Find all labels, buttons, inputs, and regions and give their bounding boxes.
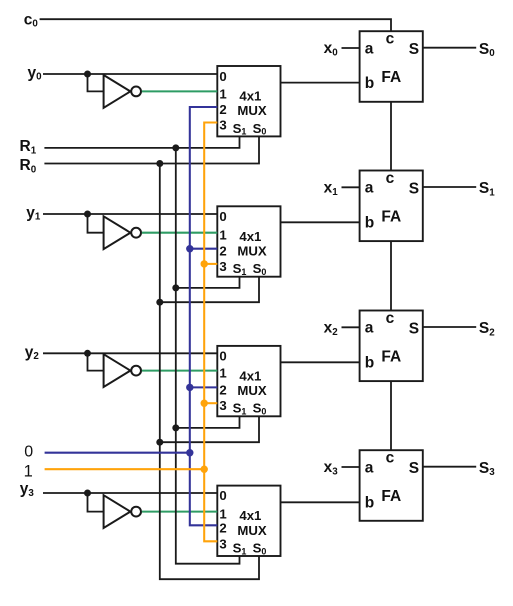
wire carry chain FA2 cout to FA3 cin bbox=[390, 241, 392, 310]
svg-text:MUX: MUX bbox=[237, 103, 267, 118]
wire inverter G1 output to MUX1 pin 1 (green) bbox=[142, 90, 217, 92]
svg-text:c: c bbox=[386, 450, 395, 467]
svg-text:b: b bbox=[365, 495, 374, 512]
svg-text:0: 0 bbox=[219, 69, 226, 84]
svg-text:3: 3 bbox=[219, 536, 226, 551]
svg-text:S1: S1 bbox=[479, 180, 495, 198]
wire net ONE branch to MUX3 pin 3 bbox=[204, 402, 217, 404]
inverter G2 triangle bbox=[104, 216, 131, 249]
svg-text:2: 2 bbox=[219, 102, 226, 117]
wire net R1 branch to MUX2 select S1 bbox=[176, 277, 240, 288]
wire net ONE row from label 1 bbox=[45, 468, 205, 470]
svg-text:2: 2 bbox=[219, 382, 226, 397]
junction y0 node bbox=[84, 71, 91, 78]
svg-text:b: b bbox=[365, 355, 374, 372]
svg-text:a: a bbox=[365, 40, 374, 57]
svg-text:3: 3 bbox=[219, 118, 226, 133]
wire MUX2 output to FA2 pin b bbox=[281, 221, 360, 223]
wire y1 branch to inverter G2 input bbox=[88, 214, 104, 233]
svg-text:S0: S0 bbox=[479, 41, 495, 59]
wire y0 input row to MUX1 pin 0 bbox=[43, 73, 217, 75]
junction net R1 branch MUX3 bbox=[172, 424, 179, 431]
junction net ZERO at MUX3 bbox=[186, 384, 193, 391]
svg-text:a: a bbox=[365, 320, 374, 337]
svg-text:x2: x2 bbox=[324, 320, 339, 338]
svg-text:1: 1 bbox=[219, 366, 226, 381]
svg-text:R1: R1 bbox=[20, 138, 37, 156]
wire net ONE (orange) vertical rail with elbows to MUX1/MUX4 pin 3 bbox=[204, 123, 217, 542]
svg-text:MUX: MUX bbox=[237, 383, 267, 398]
junction net ONE at MUX3 bbox=[201, 400, 208, 407]
svg-text:2: 2 bbox=[219, 520, 226, 535]
wire carry chain FA1 cout to FA2 cin bbox=[390, 102, 392, 171]
wire carry chain FA3 cout to FA4 cin bbox=[390, 381, 392, 450]
svg-text:a: a bbox=[365, 180, 374, 197]
svg-text:2: 2 bbox=[219, 244, 226, 259]
mux U4 4x1 MUX body bbox=[217, 486, 280, 556]
svg-text:S: S bbox=[409, 320, 419, 337]
wire FA1 sum output to S0 label bbox=[423, 47, 476, 49]
wire x2 input to FA3 pin a bbox=[342, 326, 360, 328]
svg-text:0: 0 bbox=[219, 348, 226, 363]
svg-text:S2: S2 bbox=[479, 320, 495, 338]
svg-text:FA: FA bbox=[381, 349, 401, 366]
inverter G4 bubble bbox=[131, 507, 141, 517]
svg-text:FA: FA bbox=[381, 209, 401, 226]
wire MUX3 output to FA3 pin b bbox=[281, 361, 360, 363]
wire inverter G2 output to MUX2 pin 1 (green) bbox=[142, 232, 217, 234]
svg-text:1: 1 bbox=[219, 228, 226, 243]
junction y3 node bbox=[84, 490, 91, 497]
junction y2 node bbox=[84, 350, 91, 357]
svg-text:3: 3 bbox=[219, 259, 226, 274]
svg-text:c: c bbox=[386, 170, 395, 187]
full adder U8 FA body bbox=[360, 450, 423, 521]
wire y0 branch to inverter G1 input bbox=[88, 74, 104, 91]
wire net R0 branch to MUX3 select S0 bbox=[160, 416, 259, 442]
svg-text:y1: y1 bbox=[26, 204, 41, 222]
svg-text:0: 0 bbox=[219, 209, 226, 224]
svg-text:4x1: 4x1 bbox=[239, 89, 261, 104]
junction net R0 branch MUX2 bbox=[156, 299, 163, 306]
wire net R0 branch to MUX2 select S0 bbox=[160, 277, 259, 303]
svg-text:FA: FA bbox=[381, 488, 401, 505]
inverter G4 triangle bbox=[104, 495, 131, 528]
svg-text:R0: R0 bbox=[20, 157, 37, 175]
wire y1 input row to MUX2 pin 0 bbox=[43, 213, 217, 215]
full adder U6 FA body bbox=[360, 171, 423, 242]
svg-text:S3: S3 bbox=[479, 460, 495, 478]
svg-text:MUX: MUX bbox=[237, 244, 267, 259]
wire FA4 sum output to S3 label bbox=[423, 466, 476, 468]
mux U2 4x1 MUX body bbox=[217, 206, 280, 276]
svg-text:c0: c0 bbox=[24, 11, 39, 29]
svg-text:0: 0 bbox=[219, 488, 226, 503]
full adder U7 FA body bbox=[360, 311, 423, 382]
wire y2 branch to inverter G3 input bbox=[88, 353, 104, 370]
svg-text:3: 3 bbox=[219, 398, 226, 413]
inverter G2 bubble bbox=[131, 228, 141, 238]
svg-text:a: a bbox=[365, 459, 374, 476]
svg-text:S: S bbox=[409, 460, 419, 477]
svg-text:FA: FA bbox=[381, 69, 401, 86]
svg-text:S: S bbox=[409, 41, 419, 58]
svg-text:y2: y2 bbox=[25, 344, 40, 362]
svg-text:x3: x3 bbox=[324, 459, 339, 477]
junction net R1 branch MUX2 bbox=[172, 284, 179, 291]
svg-text:x1: x1 bbox=[324, 180, 339, 198]
wire x1 input to FA2 pin a bbox=[342, 186, 360, 188]
svg-text:1: 1 bbox=[219, 86, 226, 101]
wire net ZERO row from label 0 bbox=[45, 452, 190, 454]
svg-text:4x1: 4x1 bbox=[239, 508, 261, 523]
wire FA3 sum output to S2 label bbox=[423, 326, 476, 328]
svg-text:c: c bbox=[386, 310, 395, 327]
inverter G3 triangle bbox=[104, 354, 131, 387]
svg-text:4x1: 4x1 bbox=[239, 229, 261, 244]
wire net ZERO branch to MUX2 pin 2 bbox=[190, 248, 218, 250]
wire net ONE branch to MUX2 pin 3 bbox=[204, 263, 217, 265]
wire y2 input row to MUX3 pin 0 bbox=[43, 352, 217, 354]
wire x3 input to FA4 pin a bbox=[342, 466, 360, 468]
svg-text:b: b bbox=[365, 215, 374, 232]
wire MUX4 output to FA4 pin b bbox=[281, 501, 360, 503]
junction y1 node bbox=[84, 211, 91, 218]
inverter G3 bubble bbox=[131, 366, 141, 376]
svg-text:MUX: MUX bbox=[237, 523, 267, 538]
mux U1 4x1 MUX body bbox=[217, 66, 280, 136]
junction net ONE at row bbox=[201, 466, 208, 473]
wire net R1 branch to MUX3 select S1 bbox=[176, 416, 240, 428]
wire y3 branch to inverter G4 input bbox=[88, 493, 104, 512]
wire inverter G3 output to MUX3 pin 1 (green) bbox=[142, 370, 217, 372]
wire net R1 row to MUX1 select S1 bbox=[44, 136, 239, 148]
svg-text:y3: y3 bbox=[20, 481, 35, 499]
wire net R0 vertical rail bbox=[160, 164, 259, 580]
svg-text:1: 1 bbox=[24, 463, 33, 481]
inverter G1 triangle bbox=[104, 75, 131, 108]
wire x0 input to FA1 pin a bbox=[342, 47, 360, 49]
wire MUX1 output to FA1 pin b bbox=[281, 82, 360, 84]
svg-text:c: c bbox=[386, 31, 395, 48]
junction net ZERO at MUX2 bbox=[186, 245, 193, 252]
junction net R0 at R0 row bbox=[156, 160, 163, 167]
full adder U5 FA body bbox=[360, 31, 423, 102]
junction net ZERO at row bbox=[186, 449, 193, 456]
junction net R0 branch MUX3 bbox=[156, 439, 163, 446]
wire net ZERO branch to MUX3 pin 2 bbox=[190, 386, 218, 388]
wire FA2 sum output to S1 label bbox=[423, 186, 476, 188]
wire y3 input row to MUX4 pin 0 bbox=[43, 492, 217, 494]
wire net c0 from label to FA1 carry-in bbox=[40, 19, 391, 31]
wire net R1 vertical rail bbox=[176, 148, 240, 564]
svg-text:x0: x0 bbox=[324, 40, 339, 58]
junction net ONE at MUX2 bbox=[201, 260, 208, 267]
svg-text:y0: y0 bbox=[28, 64, 43, 82]
wire net ZERO (blue) vertical rail with elbows to MUX1/MUX4 pin 2 bbox=[190, 107, 218, 525]
svg-text:b: b bbox=[365, 75, 374, 92]
wire net R0 row to MUX1 select S0 bbox=[44, 136, 259, 163]
svg-text:4x1: 4x1 bbox=[239, 369, 261, 384]
junction net R1 at R1 row bbox=[172, 144, 179, 151]
svg-text:0: 0 bbox=[24, 443, 33, 460]
mux U3 4x1 MUX body bbox=[217, 346, 280, 416]
wire inverter G4 output to MUX4 pin 1 (green) bbox=[142, 511, 217, 513]
svg-text:S: S bbox=[409, 180, 419, 197]
inverter G1 bubble bbox=[131, 87, 141, 97]
